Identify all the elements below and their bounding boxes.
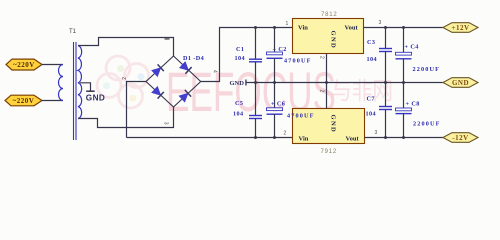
wire bridge minus to negative rail — [127, 82, 147, 138]
capacitor C5 — [255, 83, 257, 116]
bridge diamond wires — [146, 56, 201, 107]
svg-text:GND: GND — [330, 115, 337, 134]
svg-text:~220V: ~220V — [13, 61, 35, 69]
svg-text:C5: C5 — [235, 100, 243, 107]
wire +12V rail from U1 Vout — [364, 27, 444, 29]
svg-text:Vout: Vout — [346, 136, 360, 143]
svg-text:GND: GND — [452, 79, 469, 87]
junction dots ground rail — [254, 81, 257, 84]
flag +12V — [443, 23, 478, 33]
svg-text:104: 104 — [233, 111, 243, 118]
flag -12V — [443, 133, 478, 143]
svg-text:T1: T1 — [69, 29, 77, 35]
watermark logo flower — [97, 56, 149, 108]
wire U1 GND pin to ground rail — [326, 54, 328, 83]
svg-text:GND: GND — [330, 31, 337, 50]
diode D4 (bottom-right) — [179, 90, 192, 103]
svg-text:GND: GND — [230, 80, 245, 87]
svg-text:4: 4 — [212, 70, 218, 73]
wire secondary top to bridge AC1 — [78, 38, 174, 57]
svg-text:C3: C3 — [367, 39, 375, 46]
wire flag1 to transformer primary — [42, 64, 63, 66]
svg-text:Vin: Vin — [298, 25, 308, 32]
diode D2 (top-right) — [179, 61, 192, 74]
svg-text:~220V: ~220V — [13, 97, 35, 105]
svg-text:1: 1 — [286, 21, 289, 27]
svg-text:3: 3 — [375, 130, 378, 136]
bridge pin number 1 — [165, 38, 170, 39]
junction dots positive rail — [254, 26, 257, 29]
svg-text:2: 2 — [319, 56, 325, 59]
diode D3 (bottom-left) — [151, 86, 164, 99]
svg-text:Vout: Vout — [345, 25, 359, 32]
svg-text:+ C8: + C8 — [406, 101, 420, 108]
svg-text:+12V: +12V — [451, 24, 469, 32]
svg-text:C1: C1 — [236, 46, 244, 53]
svg-text:4700UF: 4700UF — [287, 113, 315, 120]
svg-text:104: 104 — [366, 111, 376, 118]
wire flag2 to transformer primary — [42, 100, 63, 102]
svg-text:7912: 7912 — [321, 149, 338, 155]
wire U2 GND pin to ground rail — [326, 83, 328, 109]
junction dots negative rail — [254, 136, 257, 139]
transformer T1 core — [73, 42, 75, 140]
wire secondary center tap — [80, 83, 91, 92]
transformer T1 secondary winding — [78, 46, 82, 119]
svg-text:2: 2 — [319, 90, 325, 93]
wire negative rail to U2 Vin — [127, 137, 293, 139]
svg-text:C7: C7 — [367, 96, 375, 103]
capacitor C7 — [385, 83, 387, 107]
svg-text:2200UF: 2200UF — [413, 66, 441, 73]
svg-text:104: 104 — [367, 56, 377, 63]
diode D1 (top-left) — [151, 64, 164, 77]
svg-text:104: 104 — [235, 55, 245, 62]
svg-text:2: 2 — [122, 77, 128, 80]
capacitor C8 (electrolytic) — [403, 83, 405, 109]
capacitor C2 (electrolytic) — [274, 28, 276, 53]
capacitor C6 (electrolytic) — [274, 83, 276, 108]
svg-text:Vin: Vin — [299, 136, 309, 143]
svg-text:+ C4: + C4 — [405, 44, 419, 51]
svg-text:4700UF: 4700UF — [284, 58, 312, 65]
wire secondary bottom to bridge AC2 — [78, 107, 174, 128]
capacitor C4 (electrolytic) — [403, 28, 405, 53]
capacitor C1 — [255, 28, 257, 60]
flag ~220V (top) — [6, 59, 42, 70]
svg-text:2200UF: 2200UF — [413, 121, 441, 128]
svg-text:2: 2 — [284, 131, 287, 137]
ground rail wire — [246, 82, 443, 84]
svg-text:D1 -D4: D1 -D4 — [183, 55, 204, 62]
svg-text:GND: GND — [86, 94, 105, 103]
transformer T1 primary winding — [59, 65, 64, 101]
wire bridge plus up to positive rail — [201, 28, 293, 82]
svg-text:7812: 7812 — [321, 12, 338, 18]
svg-text:+ C6: + C6 — [271, 101, 285, 108]
regulator U2 7912 body — [293, 109, 365, 144]
svg-text:3: 3 — [162, 122, 168, 125]
flag GND — [443, 78, 478, 88]
regulator U1 7812 body — [293, 19, 364, 54]
flag ~220V (bottom) — [5, 95, 42, 106]
svg-text:-12V: -12V — [452, 134, 468, 142]
capacitor C3 — [385, 28, 387, 49]
svg-text:3: 3 — [379, 20, 382, 26]
wire -12V rail from U2 Vout — [365, 137, 444, 139]
